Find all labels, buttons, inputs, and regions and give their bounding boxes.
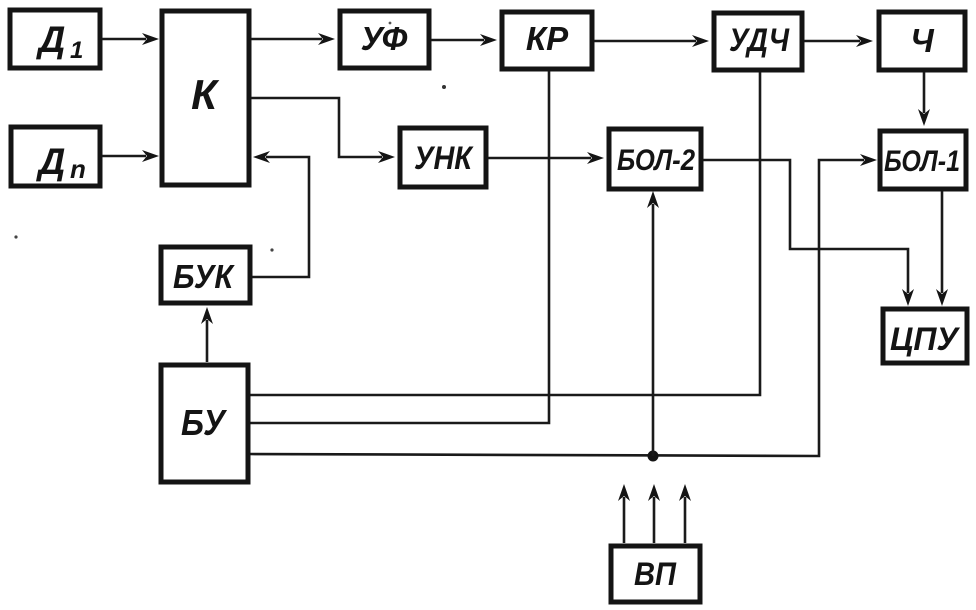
svg-text:Д: Д <box>36 141 66 182</box>
block Ч <box>879 12 965 70</box>
block БУ <box>161 365 248 482</box>
wire УНК to БОЛ-2 <box>488 152 604 164</box>
wire К to УНК <box>251 98 395 163</box>
wire Дn to К <box>102 150 159 162</box>
wire УФ to КР <box>431 34 497 46</box>
wire БОЛ-2 to ЦПУ <box>703 160 914 306</box>
wire Д1 to К <box>102 33 159 45</box>
wire БУ line1 to УДЧ <box>250 72 760 395</box>
block ВП <box>611 546 700 602</box>
svg-text:КР: КР <box>526 20 569 57</box>
block БОЛ-1 <box>880 131 966 189</box>
svg-text:БУК: БУК <box>173 258 235 295</box>
svg-text:Ч: Ч <box>910 22 934 59</box>
svg-text:1: 1 <box>70 37 83 64</box>
svg-text:УНК: УНК <box>414 140 474 176</box>
block К <box>162 11 249 185</box>
wire БОЛ-1 to ЦПУ <box>936 191 948 306</box>
wire ВП arrow 3 <box>679 484 691 543</box>
svg-text:К: К <box>191 71 220 118</box>
block УФ <box>340 11 429 68</box>
block Дn <box>11 127 100 186</box>
svg-text:УДЧ: УДЧ <box>729 22 790 58</box>
junction dot <box>648 451 659 462</box>
svg-text:УФ: УФ <box>361 20 408 57</box>
wire ВП arrow 2 <box>648 484 660 543</box>
svg-text:БОЛ-1: БОЛ-1 <box>884 145 960 178</box>
wire УДЧ to Ч <box>804 35 873 47</box>
wire БУК to К <box>252 151 309 277</box>
block УНК <box>400 128 486 187</box>
block Д1 <box>10 10 100 68</box>
wire БУ line3 to БОЛ-1 <box>250 154 877 456</box>
svg-text:БУ: БУ <box>181 402 227 443</box>
block БОЛ-2 <box>609 129 701 189</box>
svg-text:ЦПУ: ЦПУ <box>890 321 960 357</box>
wire БУ to БУК <box>201 307 213 362</box>
block КР <box>502 12 592 69</box>
wire БУ line2 to КР <box>250 71 549 423</box>
svg-text:Д: Д <box>36 19 66 60</box>
svg-text:n: n <box>70 154 86 184</box>
svg-text:БОЛ-2: БОЛ-2 <box>617 144 695 177</box>
wire ВП arrow 1 <box>618 484 630 543</box>
wire К to УФ <box>251 33 335 45</box>
block ЦПУ <box>883 309 967 363</box>
svg-text:ВП: ВП <box>634 556 677 592</box>
wire Ч to БОЛ-1 <box>918 72 930 126</box>
wire КР to УДЧ <box>594 35 709 47</box>
wire junction to БОЛ-2 bottom <box>647 191 659 456</box>
block УДЧ <box>714 13 802 70</box>
block БУК <box>161 247 250 303</box>
